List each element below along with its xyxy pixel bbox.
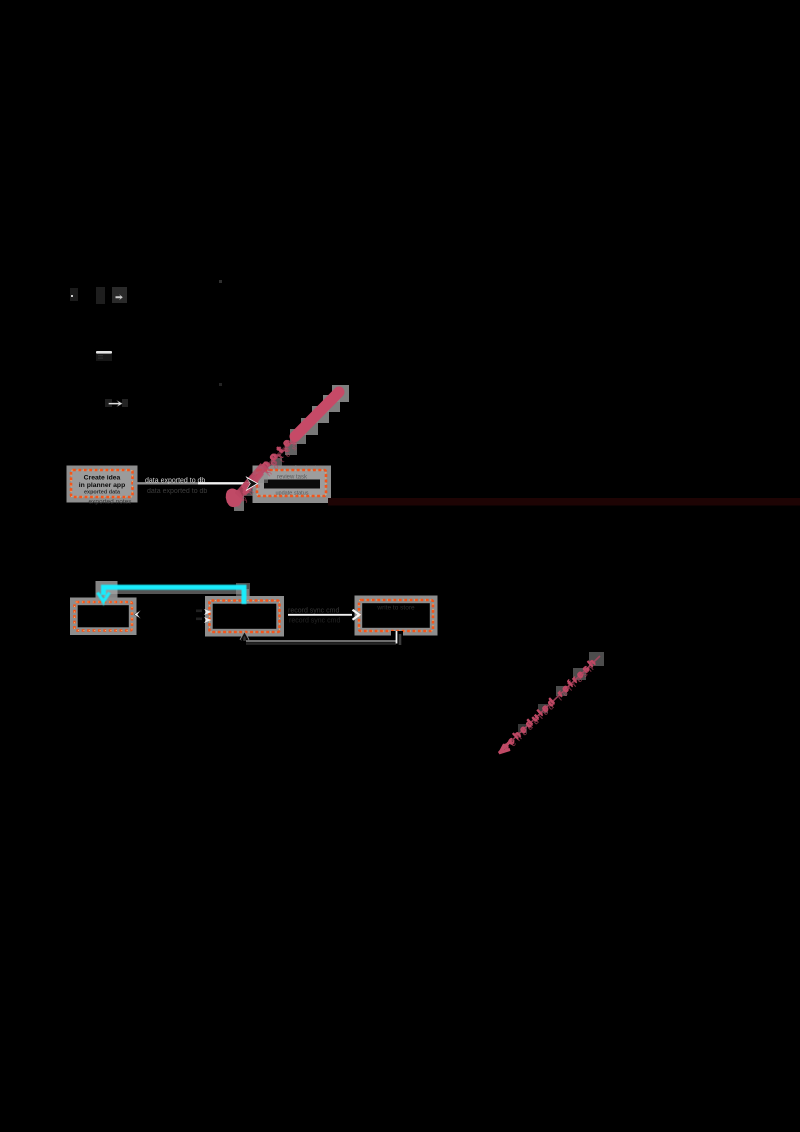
svg-text:record sync cmd: record sync cmd <box>288 608 339 615</box>
box3 halo <box>70 598 137 636</box>
arrow1 shaft <box>133 482 249 484</box>
speck dot <box>219 280 222 283</box>
arrow1 head <box>246 476 259 491</box>
box3 interior <box>78 605 129 627</box>
D1 blob tail <box>238 466 264 496</box>
speck dot 2 <box>219 383 222 386</box>
box1 fill <box>71 470 133 497</box>
svg-text:Create idea: Create idea <box>84 475 121 482</box>
box4 interior <box>213 604 277 629</box>
D1 blob arrowhead <box>226 489 242 508</box>
cyan elbow <box>98 587 245 604</box>
D2 shadow patches <box>518 652 604 733</box>
D2 line <box>500 656 600 752</box>
arrow2 head <box>353 610 360 620</box>
white arrow icon <box>105 399 128 407</box>
D2 text <box>499 658 599 755</box>
box5 halo <box>355 596 438 636</box>
box3 border <box>75 602 133 631</box>
svg-text:update status: update status <box>275 491 308 497</box>
svg-text:exported notes: exported notes <box>88 499 132 506</box>
box4 halo <box>205 596 284 637</box>
box5 interior <box>362 603 430 628</box>
cyan elbow shadow <box>106 592 247 605</box>
svg-text:write to store: write to store <box>376 605 415 612</box>
box3 right small arrow <box>134 611 141 619</box>
svg-text:record sync cmd: record sync cmd <box>289 618 340 625</box>
dark elbow box5 to box4 <box>241 631 404 645</box>
svg-text:review task: review task <box>277 475 308 481</box>
D1 text <box>243 437 296 491</box>
box2 text <box>264 475 320 497</box>
box1 halo <box>67 466 138 503</box>
svg-text:data exported to db: data exported to db <box>145 478 205 485</box>
icon block A1 <box>70 288 78 301</box>
box4 left arrowheads <box>196 609 212 623</box>
dark red stripe <box>328 498 800 506</box>
icon cursor A3 <box>112 287 127 303</box>
box2 halo <box>253 466 332 504</box>
box5 border <box>359 600 433 631</box>
arrow2 shaft <box>288 614 352 616</box>
box2 border <box>257 470 326 496</box>
D2 arrowhead <box>499 741 511 754</box>
svg-text:in planner app: in planner app <box>79 482 125 489</box>
box4 border <box>210 601 280 633</box>
box1 text <box>79 475 125 496</box>
box2 fill <box>257 470 326 496</box>
D1 band <box>295 392 339 437</box>
svg-text:exported data: exported data <box>84 490 121 496</box>
D1 shadow staircase <box>234 385 349 511</box>
cyan label backdrop <box>96 581 118 604</box>
svg-text:data exported to db: data exported to db <box>147 488 207 495</box>
icon block A2 <box>96 287 105 304</box>
box1 border <box>71 470 133 497</box>
window/table icon <box>96 351 112 361</box>
